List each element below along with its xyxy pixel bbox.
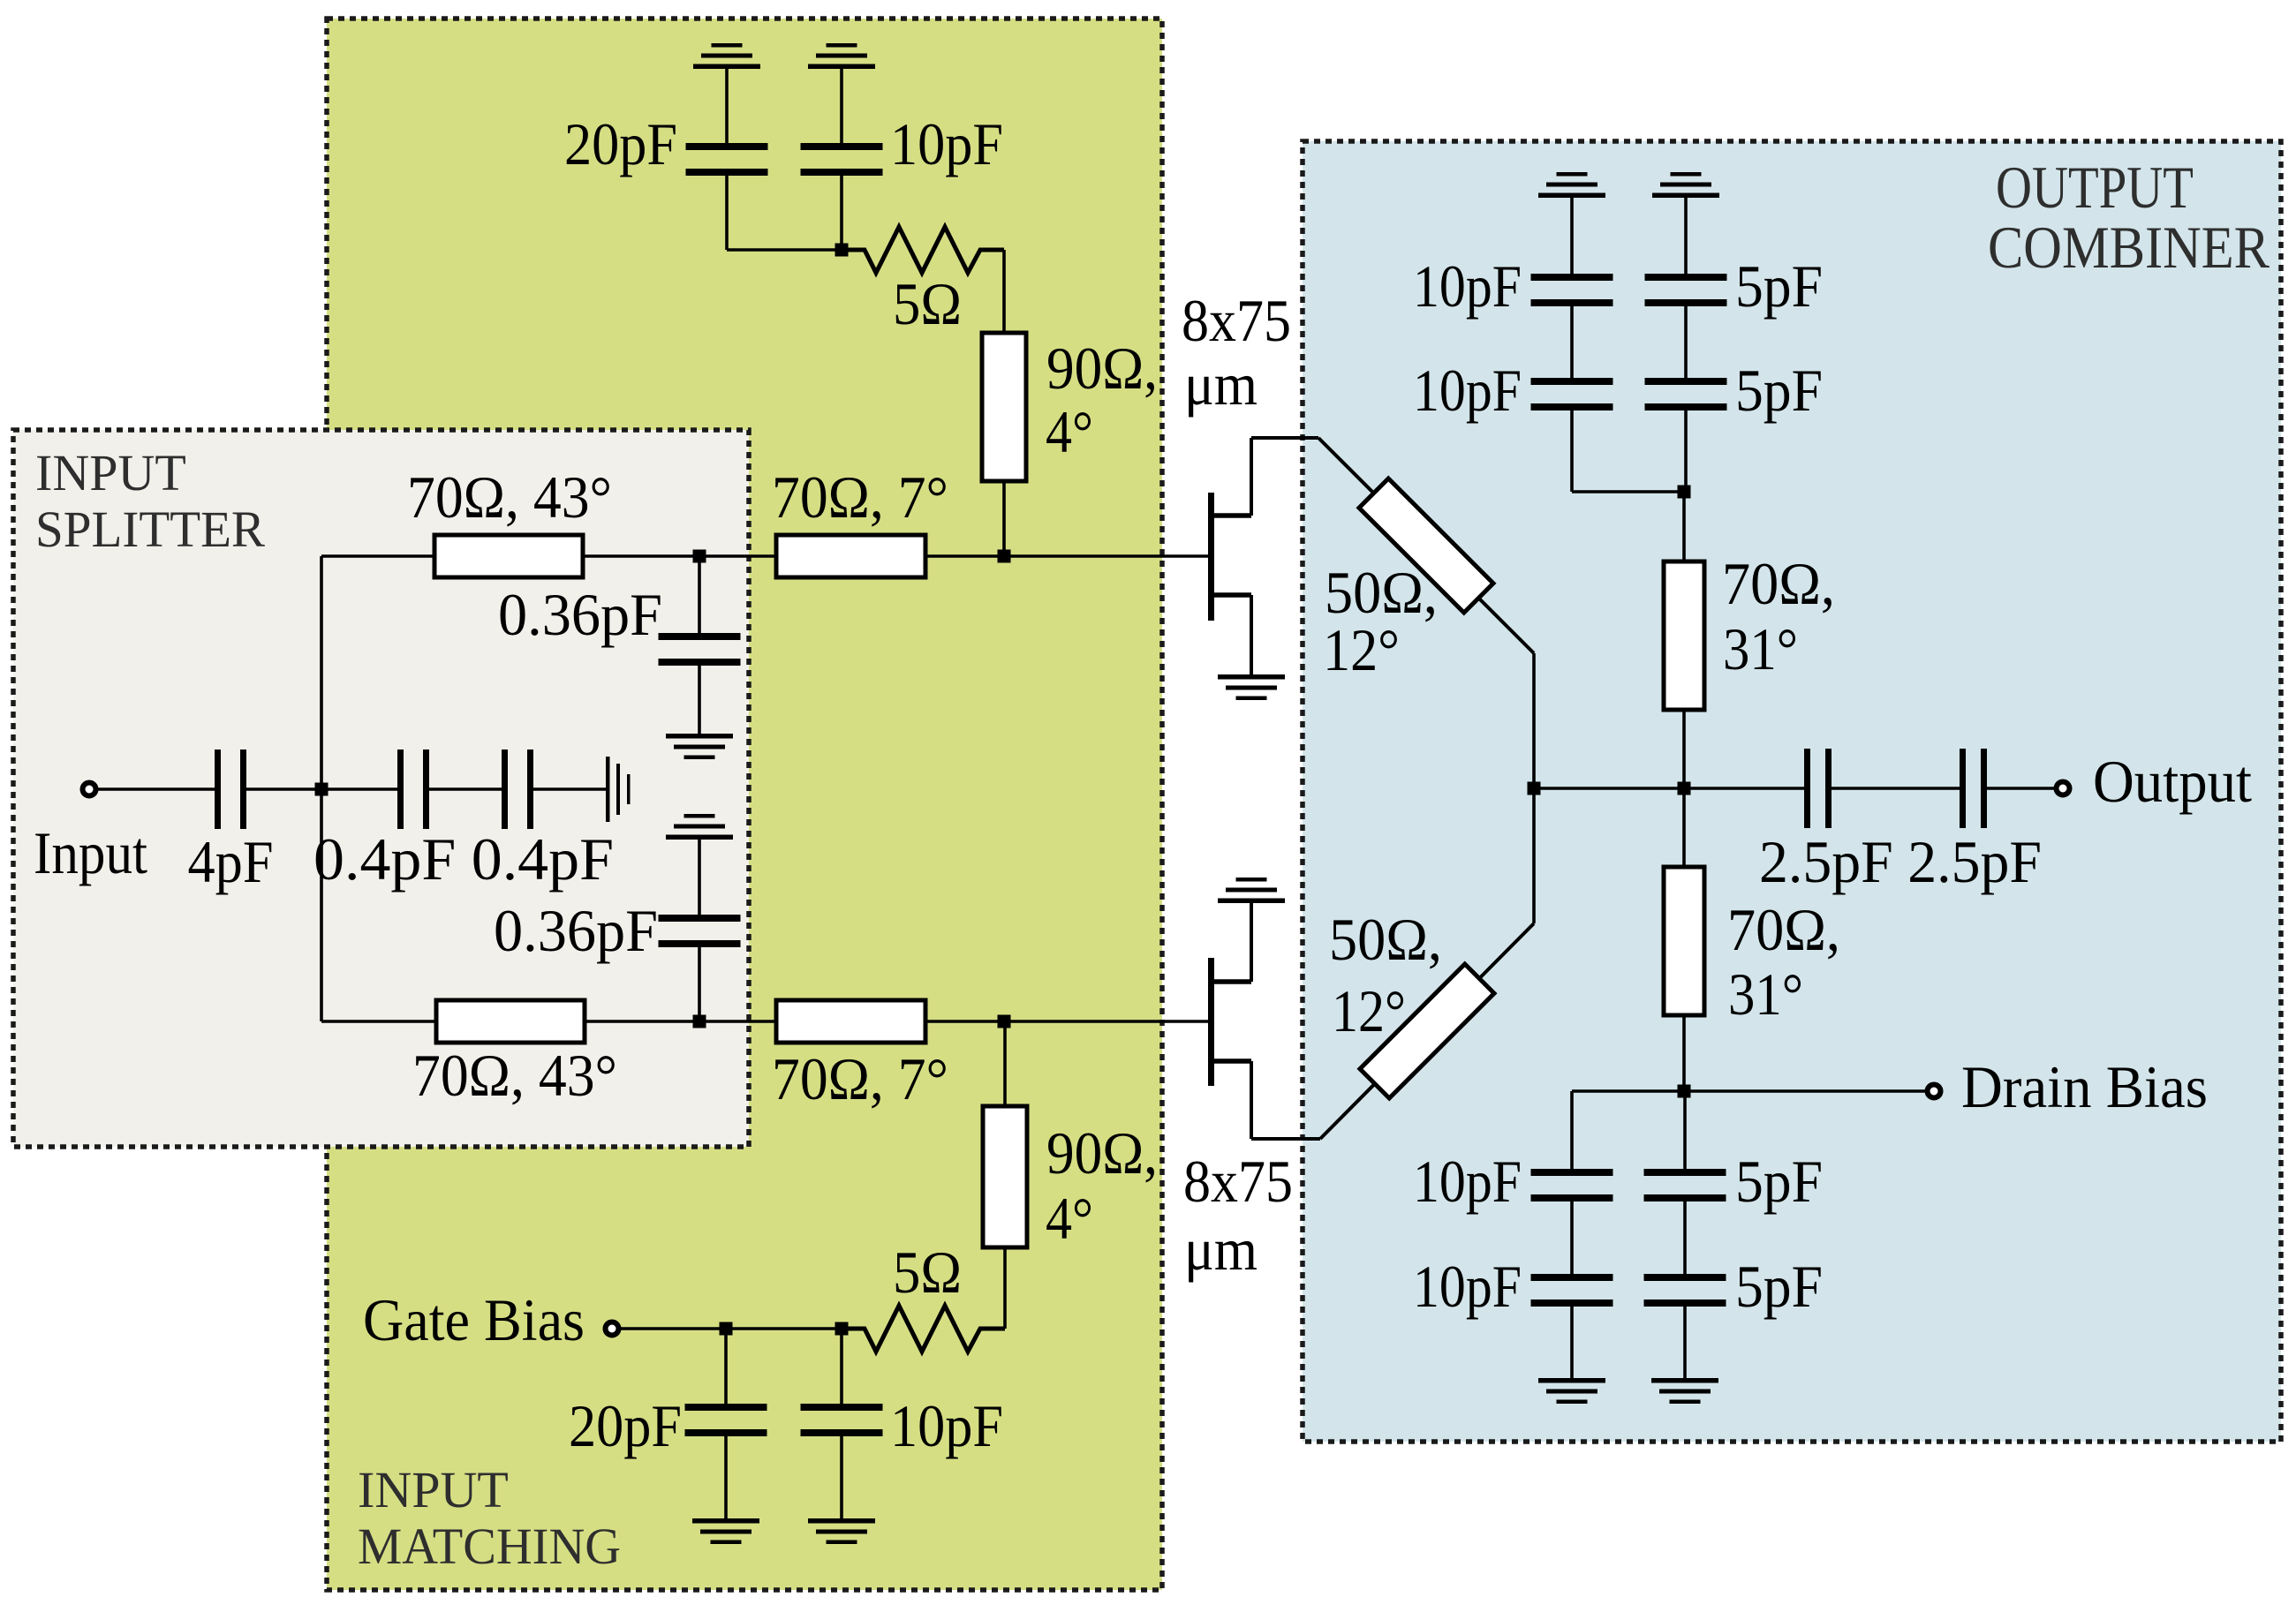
capacitor C 10pF (top) — [801, 69, 1004, 250]
svg-text:Output: Output — [2093, 748, 2252, 815]
wire: upper right col between caps — [1684, 306, 1688, 378]
capacitor C 5pF (lower col row3) — [1644, 1148, 1824, 1215]
region box: OUTPUT COMBINER (blue) — [1303, 141, 2281, 1442]
node: drain bias junction — [1678, 1085, 1691, 1098]
transmission line TL 90ohm 4deg (upper stub) — [982, 333, 1158, 481]
wire: node to upper 70ohm 31deg — [1682, 710, 1686, 788]
port: Gate Bias — [606, 1322, 619, 1336]
capacitor C 10pF (lower col row3) — [1413, 1148, 1613, 1215]
wire: between 0.4pF caps — [428, 787, 502, 791]
svg-text:8x75: 8x75 — [1182, 287, 1291, 354]
capacitor C 0.36pF (lower shunt) — [494, 840, 741, 1021]
region box: INPUT SPLITTER (gray) — [13, 430, 749, 1147]
svg-text:8x75: 8x75 — [1183, 1148, 1293, 1215]
resistor R 5ohm (bottom) — [842, 1239, 1005, 1352]
svg-text:20pF: 20pF — [569, 1392, 682, 1459]
svg-text:5pF: 5pF — [1735, 1253, 1823, 1320]
label: Gate Bias — [363, 1286, 585, 1353]
svg-text:12°: 12° — [1323, 616, 1400, 683]
ground: upper right col (inverted) — [1652, 172, 1719, 198]
node: combine junction — [1528, 782, 1541, 795]
wire: Drain Bias row — [1572, 1089, 1926, 1093]
svg-text:Drain Bias: Drain Bias — [1961, 1053, 2208, 1120]
wire: upper diagonal to combine node — [1532, 653, 1536, 788]
wire: upper 31deg to cap junction — [1682, 492, 1686, 561]
wire: bus to lower 70ohm 43deg line — [321, 1020, 436, 1023]
capacitor C 4pF (series) — [188, 750, 274, 895]
wire: between 2.5pF caps — [1832, 787, 1960, 790]
svg-text:10pF: 10pF — [1413, 252, 1522, 320]
capacitor C 20pF (bottom) — [569, 1329, 767, 1518]
svg-text:0.4pF 0.4pF: 0.4pF 0.4pF — [313, 825, 614, 893]
capacitor C 10pF (upper col row2) — [1413, 357, 1613, 424]
capacitor C 5pF (upper col row2) — [1645, 357, 1824, 424]
transmission line TL 70ohm 7deg (upper) — [772, 463, 948, 577]
node: top bias junction — [835, 244, 849, 257]
wire: lower right col from junction — [1683, 1091, 1687, 1169]
svg-text:MATCHING: MATCHING — [358, 1518, 621, 1575]
title: INPUT MATCHING — [358, 1461, 621, 1575]
svg-text:2.5pF 2.5pF: 2.5pF 2.5pF — [1759, 828, 2042, 895]
svg-text:70Ω,: 70Ω, — [1727, 896, 1840, 963]
wire: lower 90ohm stub to row — [1003, 1021, 1007, 1106]
label: Output — [2093, 748, 2252, 815]
capacitor C 0.4pF #2 (series) — [502, 750, 533, 829]
wire: 5ohm to upper 90ohm stub — [1002, 250, 1006, 333]
ground: lower right col — [1651, 1378, 1718, 1404]
label: 0.4pF 0.4pF — [313, 825, 614, 893]
node: upper splitter/matching junction — [693, 550, 706, 563]
capacitor C 2.5pF #2 (series) — [1960, 749, 1987, 828]
ground: below bottom 10pF — [808, 1518, 875, 1544]
wire: lower FET drain diagonal — [1320, 923, 1534, 1139]
svg-text:4°: 4° — [1046, 1185, 1093, 1252]
wire: lower left col from bias row — [1570, 1091, 1574, 1169]
capacitor C 5pF (lower col row4) — [1644, 1253, 1824, 1320]
capacitor C 20pF (top) — [564, 69, 768, 250]
svg-text:5Ω: 5Ω — [893, 270, 962, 337]
wire: input to 4pF — [97, 787, 215, 791]
svg-text:50Ω,: 50Ω, — [1329, 906, 1442, 973]
svg-text:SPLITTER: SPLITTER — [35, 501, 265, 558]
capacitor C 2.5pF #1 (series) — [1804, 749, 1832, 828]
capacitor C 0.4pF #1 (series) — [397, 750, 429, 829]
transmission line TL 70ohm 31deg (lower) — [1664, 867, 1840, 1028]
wire: lower TL 7deg to FET gate — [925, 1020, 1208, 1023]
transmission line TL 70ohm 43deg (lower) — [412, 1000, 617, 1109]
capacitor C 10pF (lower col row4) — [1413, 1253, 1613, 1320]
port: Input — [83, 783, 96, 796]
svg-text:5pF: 5pF — [1735, 252, 1823, 320]
wire: Gate Bias row — [620, 1327, 865, 1330]
transistor Q2 (lower FET 8x75um) — [1208, 903, 1320, 1139]
wire: output row — [1534, 787, 1806, 790]
svg-text:10pF: 10pF — [890, 1392, 1003, 1459]
svg-text:μm: μm — [1184, 1216, 1258, 1283]
wire: 0.4pF to RF ground — [532, 787, 606, 791]
svg-text:31°: 31° — [1728, 960, 1803, 1028]
svg-text:5Ω: 5Ω — [893, 1239, 962, 1306]
svg-text:70Ω, 43°: 70Ω, 43° — [412, 1042, 617, 1109]
label: 8x75 um (upper) — [1182, 287, 1291, 418]
svg-text:70Ω,: 70Ω, — [1722, 550, 1835, 617]
svg-text:0.36pF: 0.36pF — [494, 897, 658, 964]
wire: upper TL 7deg to FET gate — [925, 554, 1208, 558]
wire: lower right col between caps — [1683, 1201, 1687, 1274]
port: Output — [2057, 782, 2070, 795]
node: lower splitter/matching junction — [693, 1015, 706, 1028]
wire: lower right col to ground — [1683, 1307, 1687, 1378]
wire: splitter vertical bus — [320, 556, 323, 1021]
transmission line TL 90ohm 4deg (lower stub) — [983, 1106, 1158, 1252]
svg-text:31°: 31° — [1723, 615, 1798, 682]
transmission line TL 70ohm 31deg (upper) — [1664, 550, 1835, 710]
transistor Q1 (upper FET 8x75um) — [1208, 438, 1318, 674]
svg-text:90Ω,: 90Ω, — [1046, 1119, 1158, 1186]
svg-text:Gate Bias: Gate Bias — [363, 1286, 585, 1353]
capacitor C 10pF (upper col row1) — [1413, 252, 1613, 320]
wire: upper right col to ground — [1684, 198, 1688, 274]
ground: lower left col — [1538, 1378, 1605, 1404]
wire: lower diagonal to combine node — [1532, 788, 1536, 923]
svg-text:70Ω, 7°: 70Ω, 7° — [772, 1045, 948, 1112]
ground: above top 10pF (inverted) — [808, 43, 875, 69]
node: upper 90ohm stub junction — [998, 550, 1011, 563]
transmission line TL 50ohm 12deg (upper, diagonal) — [1323, 478, 1493, 683]
node: gate bias 20pF tap — [720, 1322, 733, 1336]
ground: below bottom 20pF — [692, 1518, 759, 1544]
wire: upper 90ohm stub to row — [1002, 481, 1006, 556]
svg-text:70Ω, 43°: 70Ω, 43° — [407, 463, 612, 531]
transmission line TL 50ohm 12deg (lower, diagonal) — [1329, 906, 1494, 1098]
label: 2.5pF 2.5pF — [1759, 828, 2042, 895]
title: OUTPUT COMBINER — [1988, 154, 2270, 281]
wire: upper TL to node — [583, 554, 776, 558]
ground: upper FET source — [1218, 674, 1285, 700]
wire: to Output port — [1987, 787, 2055, 790]
ground: above top 20pF (inverted) — [693, 43, 760, 69]
svg-text:5pF: 5pF — [1735, 1148, 1823, 1215]
wire: node to lower 70ohm 31deg — [1682, 788, 1686, 867]
port: Drain Bias — [1928, 1085, 1941, 1098]
svg-text:OUTPUT: OUTPUT — [1996, 154, 2194, 221]
node: upper cap junction — [1678, 486, 1691, 499]
node: output row junction — [1678, 782, 1691, 795]
capacitor C 0.36pF (upper shunt) — [498, 556, 741, 734]
svg-text:COMBINER: COMBINER — [1988, 214, 2270, 281]
svg-text:10pF: 10pF — [890, 110, 1003, 177]
svg-text:12°: 12° — [1332, 977, 1406, 1044]
capacitor C 10pF (bottom) — [801, 1329, 1004, 1518]
title: INPUT SPLITTER — [35, 444, 265, 558]
wire: bus to upper 70ohm 43deg line — [321, 554, 434, 558]
svg-text:10pF: 10pF — [1413, 1148, 1522, 1215]
svg-text:INPUT: INPUT — [35, 444, 186, 501]
svg-text:0.36pF: 0.36pF — [498, 581, 662, 648]
node: gate bias 10pF tap — [835, 1322, 849, 1336]
ground: lower FET source (inverted, above) — [1218, 878, 1285, 903]
wire: 5ohm to lower 90ohm stub — [1003, 1247, 1007, 1329]
svg-text:20pF: 20pF — [564, 110, 677, 177]
node: splitter junction — [315, 783, 329, 796]
capacitor C 5pF (upper col row1) — [1645, 252, 1824, 320]
ground: upper left col (inverted) — [1538, 172, 1605, 198]
label: Drain Bias — [1961, 1053, 2208, 1120]
svg-text:90Ω,: 90Ω, — [1046, 335, 1158, 402]
resistor R 5ohm (top) — [842, 227, 1004, 337]
region box: INPUT MATCHING (green) — [327, 19, 1162, 1590]
wire: upper left col between caps — [1570, 306, 1574, 378]
svg-text:5pF: 5pF — [1735, 357, 1823, 424]
svg-text:10pF: 10pF — [1413, 1253, 1522, 1320]
svg-text:4°: 4° — [1046, 398, 1093, 465]
wire: 4pF to splitter node — [245, 787, 398, 791]
wire: lower 31deg to Drain Bias row — [1682, 1015, 1686, 1091]
wire: top 20pF to 10pF node — [727, 248, 842, 252]
wire: lower TL to node — [585, 1020, 776, 1023]
ground: above lower 0.36pF (inverted) — [666, 814, 733, 840]
svg-text:Input: Input — [34, 819, 147, 886]
svg-text:70Ω, 7°: 70Ω, 7° — [772, 463, 948, 531]
svg-text:10pF: 10pF — [1413, 357, 1522, 424]
svg-text:INPUT: INPUT — [358, 1461, 509, 1518]
wire: lower left col between caps — [1570, 1201, 1574, 1274]
svg-text:μm: μm — [1184, 350, 1258, 418]
node: lower 90ohm stub junction — [998, 1015, 1011, 1028]
label: 8x75 um (lower) — [1183, 1148, 1293, 1283]
transmission line TL 70ohm 7deg (lower) — [772, 1000, 948, 1112]
svg-text:4pF: 4pF — [188, 828, 274, 895]
wire: lower left col to ground — [1570, 1307, 1574, 1378]
ground: below upper 0.36pF — [666, 734, 733, 759]
wire: upper FET drain diagonal — [1318, 438, 1534, 653]
label: Input — [34, 819, 147, 886]
wire: upper left col to ground — [1570, 198, 1574, 274]
wire: upper cap jog — [1572, 411, 1684, 492]
transmission line TL 70ohm 43deg (upper) — [407, 463, 612, 577]
wire: upper right col — [1684, 411, 1688, 492]
ground: sideways RF ground — [606, 757, 631, 822]
